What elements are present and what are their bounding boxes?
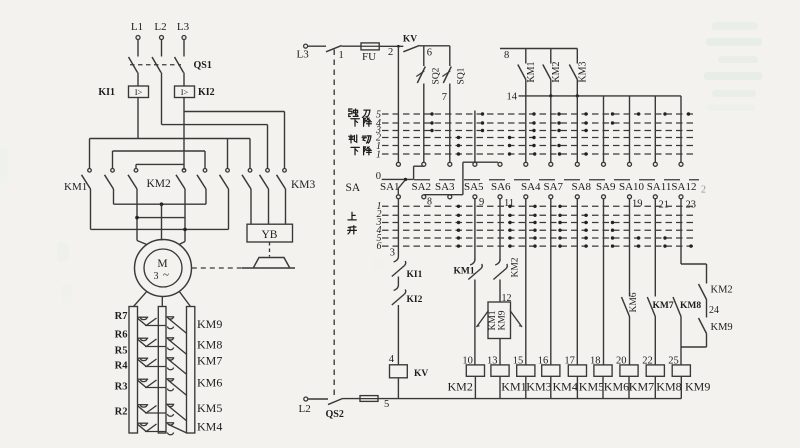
svg-text:KM3: KM3 [526, 380, 551, 394]
wire L2 QS1 down [161, 73, 163, 125]
wire node6 corner down to SQ1 [449, 46, 451, 66]
svg-text:18: 18 [590, 356, 601, 367]
svg-text:6: 6 [427, 48, 432, 59]
shorting contact KM6 left jaw tick [138, 378, 149, 380]
shorting contact KM9 left blade [146, 318, 156, 326]
SA upper terminal circle [448, 162, 452, 166]
SA column lower vertical [397, 199, 399, 256]
relay contact KI2 [394, 285, 399, 291]
svg-text:SA3: SA3 [435, 181, 455, 193]
svg-text:SA5: SA5 [464, 181, 484, 193]
shorting contact KM9 right jaw cup [167, 317, 173, 319]
svg-text:SQ1: SQ1 [457, 67, 467, 84]
svg-text:1: 1 [376, 150, 381, 161]
0-row dashed overline [414, 179, 699, 181]
relay contact KI1 [394, 256, 399, 262]
contact closure dot (hoisting) [611, 244, 614, 247]
wire KM3 pole3 bottom to YB [285, 189, 287, 224]
column drop from node14 [629, 96, 631, 162]
contact closure dot [481, 112, 484, 115]
wire KV coil to bottom rail [397, 378, 399, 399]
wire drop to KM3 pole3 [284, 112, 286, 169]
controller chart row (hoisting) [382, 222, 694, 224]
shorting contact KM5 right jaw tick [166, 403, 174, 405]
contact closure dot (hoisting) [558, 244, 561, 247]
aux contact KM1 (KM2 coil branch) [470, 259, 475, 265]
svg-text:KM2: KM2 [448, 380, 473, 394]
motor M inner circle [144, 249, 182, 287]
controller chart row (hoisting) [382, 214, 694, 216]
shorting contact KM6 left link [145, 387, 166, 389]
supply terminal L1 circle [136, 36, 140, 40]
svg-text:22: 22 [642, 356, 653, 367]
wire L3 QS1 to KI2 [183, 73, 185, 87]
shorting contact KM5 right jaw cup 2 [167, 414, 173, 416]
chinese label 上 (up) [348, 212, 356, 220]
wire KM1 pole2 bottom [113, 189, 115, 204]
contact closure dot [508, 144, 511, 147]
right branch upper wire [706, 264, 708, 284]
contact closure dot (hoisting) [584, 221, 587, 224]
chinese label 降 (lower2) [364, 147, 372, 155]
contact pole 7 blade [242, 175, 251, 189]
svg-text:KM3: KM3 [291, 179, 316, 191]
shorting contact KM7 left jaw cup [140, 358, 147, 360]
shorting contact KM9 left jaw cup [140, 317, 147, 319]
wire KM3 pole1 bottom to YB [250, 189, 252, 224]
bus A drop to KM3 pole1 [249, 139, 251, 169]
motor M outer circle [135, 240, 192, 297]
svg-text:KM9: KM9 [685, 380, 710, 394]
wire KM2 pole2 bottom [205, 189, 207, 204]
svg-text:KM9: KM9 [498, 310, 508, 330]
junction dot bar U [135, 216, 139, 220]
scan bleed-through blob [707, 104, 755, 111]
shorting contact KM8 right jaw cup 2 [167, 348, 173, 350]
svg-text:R7: R7 [115, 311, 128, 322]
contact closure dot [532, 144, 535, 147]
SA column lower vertical [654, 199, 656, 297]
shorting contact KM7 left blade [146, 359, 156, 367]
bus B drop to KM2 pole2 [204, 151, 206, 168]
SA lower terminal circle [422, 195, 426, 199]
svg-text:KM6: KM6 [629, 292, 639, 312]
svg-text:QS1: QS1 [194, 60, 212, 71]
wire L3 to switch [308, 45, 326, 47]
svg-text:SA1: SA1 [380, 181, 400, 193]
svg-text:KM8: KM8 [656, 380, 681, 394]
aux contact KM2 upper wire [550, 49, 552, 64]
shorting contact KM8 left jaw tick [138, 337, 149, 339]
shorting contact KM9 right jaw cup 2 [167, 327, 173, 329]
contactor coil KM5 box [568, 365, 586, 376]
column drop from node14 [680, 96, 682, 162]
svg-text:KM5: KM5 [197, 401, 222, 415]
rail KI2 to KV coil [397, 305, 399, 365]
chinese label 制 (brake) [349, 135, 357, 143]
wire L1 down to QS1 [137, 40, 139, 57]
svg-text:20: 20 [616, 356, 627, 367]
switch blade (control L3) [326, 46, 342, 52]
contact closure dot [508, 136, 511, 139]
svg-text:QS2: QS2 [326, 409, 344, 420]
contactor coil KM8 box [646, 365, 664, 376]
wire KM2 contact to box 12 [499, 280, 501, 303]
contact pole 4 blade [176, 175, 185, 189]
shorting contact KM5 right blade [169, 406, 187, 421]
svg-text:SA12: SA12 [671, 181, 696, 193]
shorting contact KM6 left blade [146, 380, 156, 388]
contact closure dot [532, 136, 535, 139]
contact closure dot (hoisting) [558, 221, 561, 224]
wire jog to right branch [681, 263, 707, 265]
svg-text:SA9: SA9 [596, 181, 616, 193]
contactor coil KM1 box [491, 365, 509, 376]
contact closure dot (hoisting) [558, 214, 561, 217]
right branch lower wire [706, 334, 708, 348]
shorting contact KM5 right jaw cup [167, 404, 173, 406]
svg-text:8: 8 [504, 50, 509, 61]
disconnect switch QS1 blade pole 3 [175, 57, 184, 73]
shorting contact KM8 right jaw cup [167, 338, 173, 340]
wire node6 down to SQ2 [423, 46, 425, 66]
contact closure dot (hoisting) [611, 221, 614, 224]
bus B drop to KM1 pole2 [112, 151, 114, 168]
aux contact KM1 lower wire [525, 80, 527, 96]
SA lower terminal circle [448, 195, 452, 199]
scan bleed-through blob [706, 38, 762, 46]
svg-text:KI2: KI2 [198, 87, 215, 98]
svg-text:25: 25 [668, 356, 679, 367]
column drop from node14 [654, 96, 656, 162]
shorting contact KM7 left jaw tick [138, 357, 149, 359]
svg-text:KV: KV [403, 35, 417, 45]
contact pole 8 fixed terminal circle [266, 169, 270, 173]
wire coil KM6 to bottom rail [602, 376, 604, 398]
svg-text:KM2: KM2 [147, 178, 172, 190]
svg-text:SA7: SA7 [544, 181, 564, 193]
wire KM1 pole1 bottom [90, 189, 92, 229]
shorting contact KM4 left arm [138, 424, 147, 431]
SA1 lower-terminal riser [398, 180, 405, 189]
svg-text:21: 21 [659, 200, 670, 211]
contact pole 3 blade [128, 175, 137, 189]
svg-text:L3: L3 [297, 49, 310, 61]
SA lower terminal circle [653, 195, 657, 199]
contact closure dot (hoisting) [558, 229, 561, 232]
chinese label 降 (lower) [364, 118, 372, 126]
contact closure dot [584, 152, 587, 155]
limit switch SQ1 blade [443, 67, 451, 84]
svg-text:13: 13 [487, 356, 498, 367]
svg-text:L1: L1 [131, 21, 143, 33]
svg-text:KI1: KI1 [98, 87, 115, 98]
brake shoe symbol [254, 258, 290, 268]
wire coil KM2 to bottom rail [474, 376, 476, 398]
wire L2 down to QS1 [161, 40, 163, 57]
shorting contact KM4 left jaw tick [138, 422, 149, 424]
SA upper terminal circle [653, 162, 657, 166]
control supply L3 circle [304, 44, 308, 48]
fuse FU box [361, 43, 379, 50]
contact pole 1 blade [82, 175, 91, 189]
shorting contact KM9 right blade [169, 319, 187, 334]
wire L2 to QS2 [308, 398, 328, 400]
contact pole 6 fixed terminal circle [226, 169, 230, 173]
shorting contact KM8 left arm [138, 339, 147, 346]
contact closure dot [557, 112, 560, 115]
contact closure dot [558, 152, 561, 155]
chinese label 升 (rise) [348, 226, 357, 234]
contact closure dot (hoisting) [508, 236, 511, 239]
controller chart row (lowering) [382, 113, 696, 115]
aux contact KM8 blade (KM9 coil branch) [673, 297, 681, 317]
wire node1 to FU [342, 45, 362, 47]
shorting contact KM9 left arm [138, 318, 147, 325]
shorting contact KM9 right jaw tick [166, 316, 174, 318]
contact closure dot (hoisting) [457, 205, 460, 208]
controller chart row (lowering) [382, 153, 696, 155]
SA upper terminal circle [549, 162, 553, 166]
junction dot KM2 on node14 [549, 94, 552, 97]
wire L1 KI1 to bus A [137, 98, 139, 139]
chinese label 动 (brake2) [362, 136, 371, 143]
relay contact KV blade [403, 45, 419, 51]
svg-text:SA: SA [346, 182, 361, 194]
disconnect switch QS1 blade pole 2 [152, 57, 161, 73]
shorting contact KM6 right blade [169, 381, 187, 396]
shorting contact KM5 left jaw cup [140, 405, 147, 407]
shorting contact KM8 right blade [169, 340, 187, 355]
SA lower terminal circle [549, 195, 553, 199]
contact closure dot [532, 121, 535, 124]
contact closure dot (hoisting) [508, 221, 511, 224]
wire coil KM5 to bottom rail [576, 376, 578, 398]
svg-text:SQ2: SQ2 [432, 67, 442, 84]
svg-text:23: 23 [686, 200, 697, 211]
shorting contact KM6 right jaw tick [166, 378, 174, 380]
scan bleed-through blob [62, 284, 72, 304]
wire QS2 to fuse [343, 398, 361, 400]
svg-text:24: 24 [709, 305, 719, 316]
controller chart row (lowering) [382, 137, 696, 139]
svg-text:KM7: KM7 [197, 354, 222, 368]
shorting contact KM7 left arm [138, 359, 147, 366]
controller chart row (hoisting) [382, 245, 694, 247]
SA upper terminal circle [498, 162, 502, 166]
contact closure dot (hoisting) [508, 205, 511, 208]
svg-text:R6: R6 [115, 330, 128, 341]
svg-text:KM8: KM8 [680, 301, 701, 311]
wire KM6 contact to KM7 coil [629, 317, 631, 365]
contactor coil KM4 box [542, 365, 560, 376]
svg-text:3: 3 [390, 248, 395, 259]
wire coil KM4 to bottom rail [550, 376, 552, 398]
control supply L2 circle [304, 397, 308, 401]
SA column lower vertical [474, 199, 476, 260]
aux contact KM2 lower wire [550, 80, 552, 96]
wire coil KM1 to bottom rail [499, 376, 501, 398]
chinese label 下 (down) [351, 119, 359, 126]
SA upper terminal circle [396, 162, 400, 166]
SA upper terminal circle [422, 162, 426, 166]
svg-text:17: 17 [564, 356, 575, 367]
svg-text:KM1: KM1 [501, 380, 526, 394]
contact pole 1 fixed terminal circle [88, 169, 92, 173]
contact closure dot [557, 121, 560, 124]
wire KM2 pole3 bottom [228, 189, 230, 229]
svg-text:KM7: KM7 [629, 380, 654, 394]
contact closure dot [584, 129, 587, 132]
shorting contact KM9 left link [145, 325, 166, 327]
scan bleed-through blob [57, 243, 69, 261]
aux contact KM1 blade [518, 65, 526, 80]
shorting contact KM6 left jaw cup [140, 379, 147, 381]
wire KM7 contact to KM8 coil [654, 317, 656, 365]
svg-text:R4: R4 [115, 361, 129, 372]
controller chart row (lowering) [382, 122, 696, 124]
right branch middle wire [706, 300, 708, 318]
contact closure dot [481, 129, 484, 132]
junction dot bar W tap [183, 228, 187, 232]
shorting contact KM5 left jaw tick [138, 404, 149, 406]
shorting contact KM8 right jaw tick [166, 337, 174, 339]
svg-text:SA11: SA11 [647, 181, 672, 193]
wire FU to node 2 [379, 45, 403, 47]
scan bleed-through blob [718, 56, 758, 63]
aux contact KM3 upper wire [576, 49, 578, 64]
SA upper terminal circle [524, 162, 528, 166]
resistor bank bar 3 [187, 307, 195, 434]
junction dot on 0-line [404, 178, 407, 181]
switch QS2 blade [328, 399, 343, 405]
dashed link YB to brake shoe [269, 242, 271, 257]
SA column lower vertical [603, 199, 605, 365]
SA lower terminal circle [679, 195, 683, 199]
contact closure dot (hoisting) [611, 229, 614, 232]
aux contact KM7 blade (KM8 coil branch) [647, 297, 655, 317]
left rail node2 to SA1 terminal [397, 46, 399, 162]
svg-text:~: ~ [163, 269, 169, 281]
contact closure dot (hoisting) [637, 236, 640, 239]
SA column lower vertical [576, 199, 578, 365]
contact pole 8 blade [260, 175, 269, 189]
rail between KI1 KI2 [397, 277, 399, 285]
shorting contact KM4 right blade [169, 425, 187, 434]
wire L2 branch to KM3 pole2 [162, 124, 268, 126]
contact closure dot [532, 112, 535, 115]
contact closure dot [687, 112, 690, 115]
contact closure dot (hoisting) [689, 244, 692, 247]
contact closure dot (hoisting) [533, 236, 536, 239]
SA1 lower stub [397, 188, 399, 194]
wire coil KM3 to bottom rail [525, 376, 527, 398]
motor lead 1 slant [137, 241, 147, 245]
controller chart row (hoisting) [382, 229, 694, 231]
SA lower terminal circle [602, 195, 606, 199]
motor lead 3 slant [179, 242, 185, 245]
SA lower terminal circle [628, 195, 632, 199]
svg-text:SA6: SA6 [491, 181, 511, 193]
output bar U [137, 217, 185, 219]
supply terminal L2 circle [160, 36, 164, 40]
aux contact KM2 blade (right branch) [699, 284, 707, 300]
contact closure dot [508, 152, 511, 155]
fuse FU2 through-wire [360, 398, 378, 400]
QS1 gang dashed link [130, 64, 181, 66]
contactor coil KM7 box [620, 365, 638, 376]
resistor bank bar 2 [158, 307, 166, 434]
scan bleed-through blob [712, 90, 756, 97]
contact closure dot [584, 121, 587, 124]
SA upper terminal circle [473, 162, 477, 166]
SA lower terminal circle [575, 195, 579, 199]
wire KV to node 6 corner [420, 45, 450, 47]
contact closure dot (hoisting) [533, 229, 536, 232]
wire L3 down to QS1 [183, 40, 185, 57]
overcurrent relay KI1 box [129, 86, 149, 98]
controller chart row (lowering) [382, 145, 696, 147]
svg-text:KM8: KM8 [197, 338, 222, 352]
junction dot KM3 on node14 [576, 94, 579, 97]
svg-text:2: 2 [388, 47, 393, 58]
svg-text:SA2: SA2 [412, 181, 432, 193]
limit switch SQ2 blade [417, 67, 425, 84]
contact closure dot (hoisting) [611, 236, 614, 239]
contactor coil KM6 box [594, 365, 612, 376]
aux contact KM2 blade [543, 65, 551, 80]
contact closure dot (hoisting) [584, 236, 587, 239]
bottom rail [378, 398, 681, 400]
node 8 bus [500, 48, 577, 50]
svg-text:5: 5 [384, 399, 389, 410]
shorting contact KM6 right jaw cup [167, 379, 173, 381]
svg-text:KV: KV [414, 369, 428, 379]
wire L1 QS1 to KI1 [137, 73, 139, 87]
SA column lower vertical [680, 199, 682, 264]
controller chart row (hoisting) [382, 237, 694, 239]
svg-text:16: 16 [538, 356, 549, 367]
scan bleed-through blob [373, 258, 383, 270]
contact closure dot (hoisting) [457, 236, 460, 239]
limit switch SQ2 tick [416, 71, 424, 77]
contact closure dot (hoisting) [584, 229, 587, 232]
chinese label 下 (down2) [351, 147, 359, 154]
svg-text:L2: L2 [299, 403, 311, 415]
svg-text:2: 2 [701, 185, 706, 196]
aux contact KM3 blade [569, 65, 577, 80]
wire coil KM8 to bottom rail [654, 376, 656, 398]
shorting contact KM4 right jaw tick [166, 422, 174, 424]
SA column lower vertical [629, 199, 631, 297]
shorting contact KM6 right jaw cup 2 [167, 389, 173, 391]
brake base line [242, 267, 295, 269]
svg-text:L3: L3 [177, 21, 190, 33]
shorting contact KM7 right blade [169, 360, 187, 375]
svg-text:4: 4 [389, 354, 395, 365]
svg-text:KM1: KM1 [488, 310, 498, 330]
fuse FU2 box [360, 396, 378, 402]
bus A drop to KM1 pole1 [89, 139, 91, 169]
svg-text:L2: L2 [154, 21, 166, 33]
svg-text:KM6: KM6 [197, 376, 222, 390]
contact closure dot [457, 144, 460, 147]
shorting contact KM9 left jaw tick [138, 316, 149, 318]
shorting contact KM4 left jaw cup [140, 423, 147, 425]
fuse FU through-wire [361, 45, 379, 47]
wire SQ2 down to SA2 terminal [423, 84, 425, 163]
SA lower terminal circle [498, 195, 502, 199]
